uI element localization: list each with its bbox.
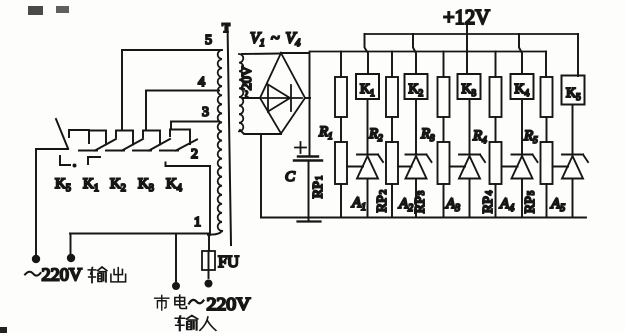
output terminal A: [32, 255, 40, 263]
resistor R3 body: [438, 77, 450, 117]
wire A2 cathode to ground rail: [415, 179, 417, 218]
svg-text:5: 5: [205, 33, 212, 48]
wire capacitor to ground rail: [308, 161, 310, 222]
wire RP2 wiper to A2 gate: [398, 166, 412, 168]
capacitor C plates: [294, 157, 322, 161]
label input hanzi 入: [200, 317, 216, 330]
relay contact K4 blade: [176, 140, 197, 151]
tap 4 wire to contact K3 seat: [146, 91, 219, 131]
junction dot at common node: [207, 233, 211, 237]
label ~220V output text: [25, 272, 41, 276]
wire A3 cathode to ground rail: [469, 179, 471, 218]
transformer right winding ~20V secondary: [239, 54, 243, 131]
wire R5 to RP5: [546, 117, 548, 142]
relay contact K3 blade: [149, 139, 170, 151]
relay contact K1 blade: [95, 139, 116, 151]
svg-text:RP1: RP1: [311, 176, 326, 199]
svg-text:K1: K1: [83, 176, 99, 194]
wire RP2 to ground rail: [391, 184, 393, 218]
svg-text:R5: R5: [523, 128, 538, 145]
contact chain link 3: [160, 150, 178, 152]
contact K3 seat: [143, 131, 160, 145]
svg-text:K1: K1: [360, 82, 375, 98]
svg-text:K3: K3: [462, 82, 477, 98]
svg-text:A5: A5: [550, 196, 565, 214]
capacitor C plus sign: [295, 142, 306, 153]
contact lower mark under K1: [88, 157, 100, 164]
relay coil K5 body: [562, 76, 585, 105]
contact lower mark under K5: [60, 156, 70, 165]
svg-text:R4: R4: [472, 128, 487, 145]
relay coil K1 body: [356, 74, 379, 99]
label output hanzi 出: [111, 268, 126, 282]
svg-text:V1~V4: V1~V4: [250, 30, 300, 49]
scan smudge top-left: [28, 6, 69, 15]
bridge rectifier diamond: [260, 53, 305, 134]
wire K2 to A2: [415, 99, 417, 155]
wire A5 cathode to ground rail: [572, 179, 574, 218]
svg-text:A4: A4: [499, 196, 514, 214]
svg-text:~20V: ~20V: [240, 66, 255, 98]
relay coil K2 body: [405, 74, 428, 99]
thyristor A3: [459, 155, 485, 179]
svg-text:220V: 220V: [207, 294, 251, 314]
thyristor A5: [562, 155, 588, 179]
output terminal B: [67, 254, 75, 262]
+12V feed riser: [466, 25, 468, 74]
wire K4 to A4: [521, 99, 523, 155]
mains input terminal B: [205, 280, 213, 288]
svg-text:A3: A3: [445, 196, 460, 214]
fuse FU wire through: [208, 251, 210, 278]
wire K3 to A3: [469, 99, 471, 155]
wire rail2 to R4: [495, 52, 497, 78]
svg-text:K3: K3: [138, 176, 154, 194]
svg-text:A2: A2: [398, 196, 413, 214]
wire rail1 to K2 (jog over rail2): [413, 34, 416, 74]
scan smudge bottom-left: [0, 327, 7, 333]
tap 5 wire to contact K2 seat: [122, 50, 222, 131]
wire R4 to RP4: [495, 117, 497, 142]
wire rail1 end down to K5: [577, 34, 579, 76]
wire rail1 to K4 (jog over rail2): [519, 34, 522, 74]
svg-text:R3: R3: [420, 126, 435, 143]
resistor R5 body: [541, 77, 553, 117]
contact K2 seat: [116, 131, 133, 145]
label mains hanzi 市: [155, 295, 169, 310]
junction dot artifact: [73, 164, 77, 168]
wire RP4 to ground rail: [495, 184, 497, 218]
wire bridge bottom branch to ground rail: [260, 134, 262, 218]
ground rail (negative bus): [261, 217, 586, 219]
svg-text:K4: K4: [166, 176, 182, 194]
wire RP4 wiper to A4 gate: [502, 166, 518, 168]
wire common junction to FU: [208, 235, 210, 252]
ground tick below rail: [298, 220, 321, 222]
wire R2 to RP2: [391, 117, 393, 142]
wire rail2 end down to R5: [545, 52, 547, 78]
label input hanzi 输: [175, 315, 197, 330]
wire mains riser from FU junction to tap2 line: [209, 166, 211, 234]
wire RP1 to ground rail: [340, 184, 342, 218]
+12V rail 2 (resistor bus from bridge): [310, 51, 547, 53]
wire R1 to RP1: [340, 117, 342, 142]
svg-text:K5: K5: [566, 86, 581, 102]
svg-text:R2: R2: [368, 126, 383, 143]
wire RP5 to ground rail: [546, 184, 548, 218]
resistor R4 body: [490, 77, 502, 117]
wire rail1 to K1 (jog over rail2): [365, 34, 369, 74]
svg-text:3: 3: [202, 105, 209, 120]
wire K5 to A5: [572, 105, 574, 155]
relay contact K5 blade: [56, 119, 68, 149]
transformer T core: [228, 24, 232, 245]
tap 3 wire to contact K4 seat: [171, 122, 219, 130]
potentiometer RP2 body: [386, 142, 398, 184]
svg-text:FU: FU: [218, 252, 239, 271]
wire RP3 wiper to A3 gate: [450, 166, 466, 168]
thyristor A4: [512, 155, 538, 179]
mains input terminal A: [172, 282, 180, 290]
contact chain link 0: [79, 150, 97, 152]
wire secondary bottom to bridge bottom vertex: [240, 130, 281, 134]
contact chain link 2: [133, 150, 151, 152]
svg-text:K5: K5: [55, 176, 71, 194]
wire A1 cathode to ground rail: [367, 179, 369, 218]
wire output bus to contact chain: [36, 148, 68, 150]
relay coil K4 body: [511, 74, 534, 99]
svg-text:T: T: [222, 20, 230, 35]
svg-text:K4: K4: [515, 82, 530, 98]
label output hanzi 输: [88, 267, 106, 283]
wire rail2 to R2: [391, 52, 393, 78]
resistor R1 body: [335, 77, 347, 117]
fuse FU body: [202, 251, 215, 270]
label mains hanzi 电: [175, 295, 187, 308]
potentiometer RP4 body: [490, 142, 502, 184]
transformer left winding (tapped autotransformer winding): [218, 50, 222, 231]
contact chain link 1: [106, 150, 124, 152]
contact K1 seat: [89, 131, 106, 145]
wire rail2 to R1: [340, 52, 342, 78]
wire A4 cathode to ground rail: [521, 179, 523, 218]
wire bridge plus to rails: [281, 52, 309, 54]
svg-text:4: 4: [198, 75, 205, 90]
thyristor A2: [406, 155, 432, 179]
wire RP1 wiper to A1 gate: [347, 166, 363, 168]
svg-text:C: C: [285, 169, 296, 185]
tap 2 wire / mains feed line: [166, 163, 211, 167]
wire RP3 to ground rail: [443, 184, 445, 218]
relay contact K2 blade: [122, 139, 143, 151]
wire winding bottom to common junction: [209, 231, 222, 235]
svg-text:K2: K2: [110, 176, 126, 194]
potentiometer RP5 body: [541, 142, 553, 184]
wire common line: [70, 233, 209, 235]
wire RP5 wiper to A5 gate: [553, 166, 569, 168]
svg-text:K2: K2: [409, 82, 424, 98]
svg-text:RP2: RP2: [375, 190, 390, 213]
relay coil K3 body: [458, 74, 481, 99]
svg-text:220V: 220V: [42, 265, 83, 285]
svg-text:R1: R1: [318, 124, 333, 141]
wire output terminal B riser: [70, 234, 72, 256]
potentiometer RP3 body: [438, 142, 450, 184]
wire output terminal riser: [35, 149, 37, 256]
bridge inner diode V: [262, 85, 302, 112]
svg-text:A1: A1: [351, 195, 366, 213]
wire R3 to RP3: [443, 117, 445, 142]
potentiometer RP1 body: [335, 142, 347, 184]
resistor R2 body: [386, 77, 398, 117]
svg-text:2: 2: [191, 147, 198, 162]
contact K5 seat: [69, 130, 89, 143]
wire secondary top to bridge: [242, 53, 279, 56]
wire bridge right vertex stub: [305, 97, 310, 99]
wire secondary to bridge left vertex: [243, 97, 260, 99]
thyristor A1: [357, 155, 383, 179]
wire rail2 to R3: [443, 52, 445, 78]
contact K4 seat: [170, 130, 190, 145]
svg-text:RP4: RP4: [481, 190, 496, 213]
+12V rail 1 (relay coil bus): [365, 33, 579, 35]
svg-text:1: 1: [194, 215, 201, 230]
svg-text:RP3: RP3: [413, 190, 428, 213]
wire bridge plus down to capacitor: [309, 53, 311, 156]
svg-text:RP5: RP5: [523, 190, 538, 213]
wire mains input A riser: [175, 234, 177, 283]
label mains ~220V text: [189, 300, 204, 304]
wire K1 to A1: [367, 99, 369, 155]
